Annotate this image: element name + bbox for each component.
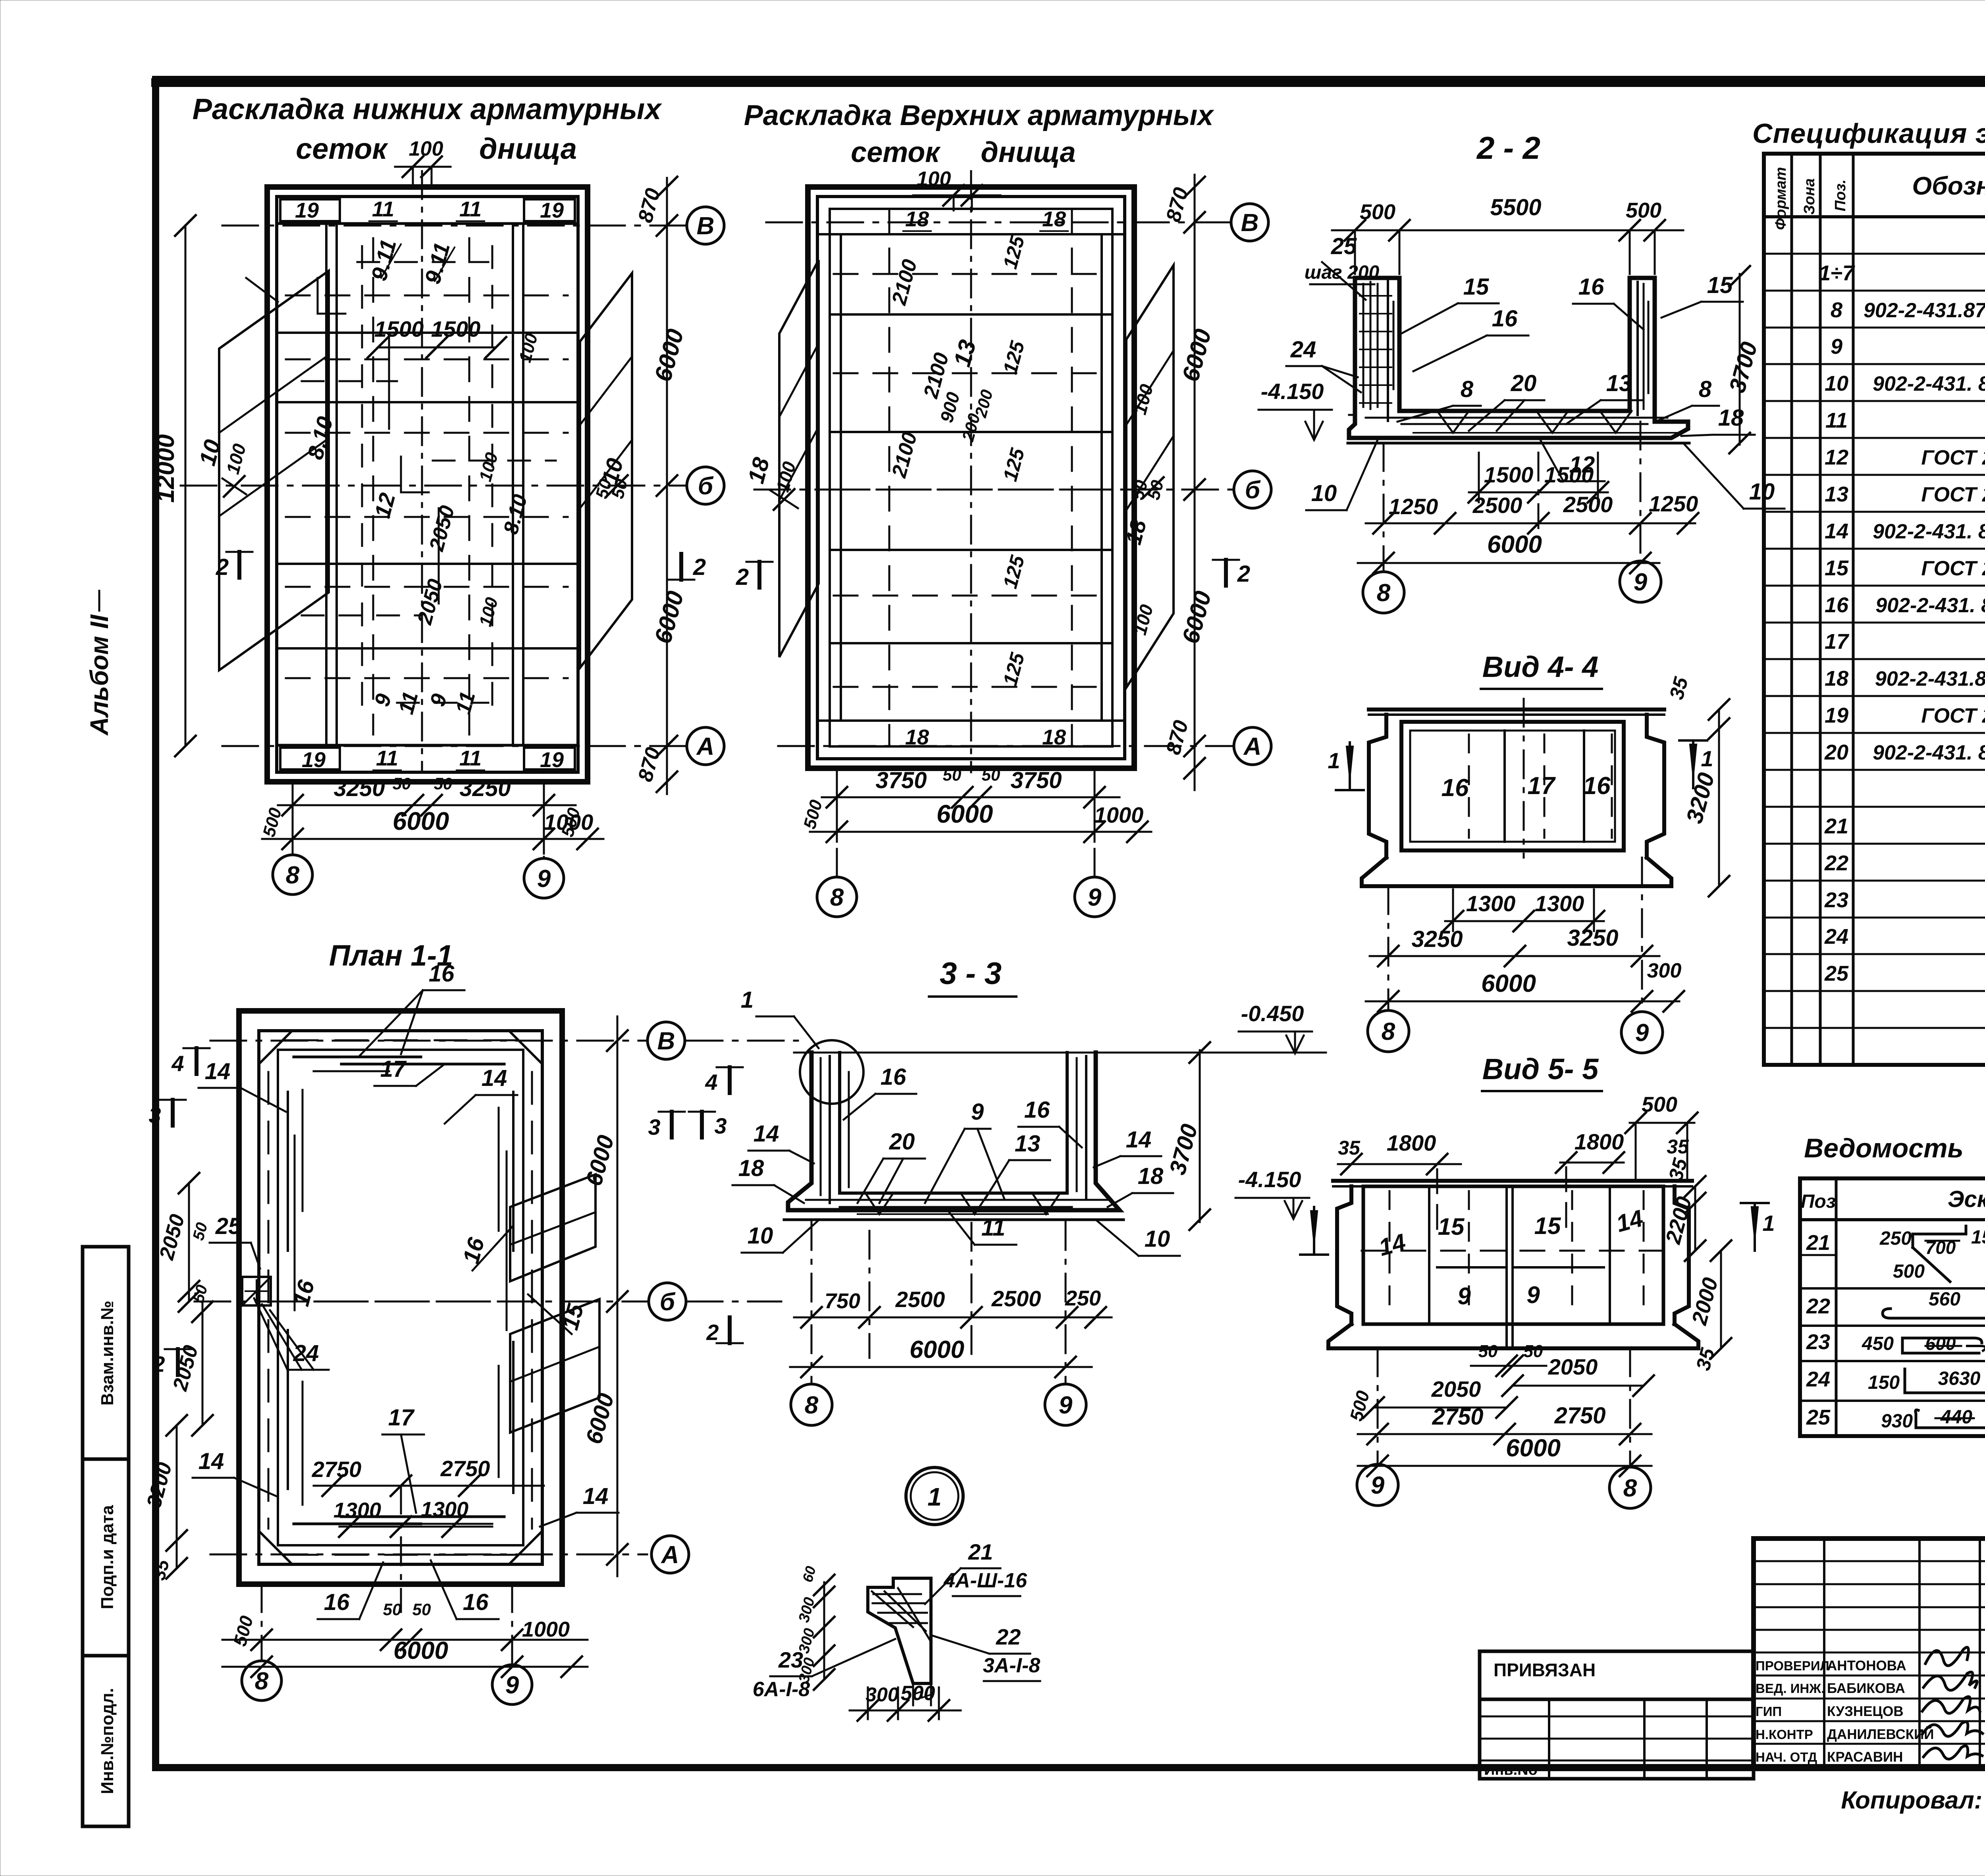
svg-text:21: 21 [1806,1231,1830,1255]
svg-text:22: 22 [1806,1294,1830,1318]
svg-text:2 - 2: 2 - 2 [1476,130,1540,166]
svg-text:1: 1 [1328,748,1340,773]
svg-text:35: 35 [1338,1137,1361,1159]
lower mesh plan bottom corner mesh boxes 19-11-11-19 [277,745,578,772]
svg-text:22: 22 [1824,851,1848,875]
svg-text:9: 9 [505,1672,519,1699]
svg-text:8: 8 [1623,1475,1637,1502]
svg-text:16: 16 [1492,306,1518,332]
svg-text:17: 17 [388,1405,415,1431]
parts list row 22 straight bar with hooks [1806,1289,1985,1318]
svg-text:Ведомость: Ведомость [1804,1133,1964,1163]
section 3-3 concrete outline [784,1053,1326,1220]
section 2-2 labels 8 20 13 8 18 [1397,370,1755,436]
plan 1-1 section marks 4 3 3 2 [148,1048,727,1377]
svg-text:14: 14 [754,1121,779,1147]
svg-text:1500: 1500 [1484,462,1534,487]
svg-text:2: 2 [693,554,706,580]
section 3-3 bottom chain 750 2500 2500 250 [794,1223,1112,1358]
svg-text:1000: 1000 [522,1618,570,1641]
svg-text:17: 17 [1528,772,1556,800]
svg-text:8: 8 [1699,376,1712,402]
svg-text:3250: 3250 [333,775,385,801]
svg-text:16: 16 [1825,593,1849,617]
bottom dimensions 3750-3750 of upper plan [800,765,1120,842]
svg-text:-4.150: -4.150 [1238,1167,1301,1192]
svg-text:6000: 6000 [1506,1434,1561,1462]
svg-text:б: б [660,1288,676,1316]
svg-text:8: 8 [1377,579,1391,607]
svg-text:16: 16 [1578,274,1604,300]
svg-text:21: 21 [1824,814,1848,838]
axis circle В lower plan [687,207,724,244]
svg-text:Инв.No: Инв.No [1484,1762,1538,1778]
svg-text:560: 560 [1929,1289,1960,1310]
svg-text:16: 16 [463,1589,489,1615]
svg-text:4: 4 [705,1070,717,1095]
svg-text:16: 16 [1583,772,1611,800]
right mesh sheet flag of lower plan [580,273,632,668]
svg-text:В: В [1241,209,1259,237]
svg-text:9: 9 [1634,569,1648,596]
specification table grid [1764,154,1985,1065]
svg-text:10: 10 [748,1223,773,1249]
axis circle А lower plan [687,727,724,765]
svg-text:3250: 3250 [459,775,511,801]
section title 2-2 [1476,130,1540,166]
svg-text:902-2-431.87- КЖН.41. 0-02: 902-2-431.87- КЖН.41. 0-02 [1864,299,1985,322]
svg-text:17: 17 [1825,630,1850,654]
svg-text:6000: 6000 [1487,531,1542,558]
svg-text:Подп.и дата: Подп.и дата [98,1505,117,1609]
section 3-3 wall rebar lines [821,1056,1086,1203]
section title 3-3 [929,956,1016,997]
svg-text:450: 450 [1862,1333,1894,1354]
svg-text:4А-Ш-16: 4А-Ш-16 [943,1569,1027,1592]
section 2-2 right wall rebar [1638,282,1648,415]
detail marker circle 1 [906,1467,963,1525]
svg-text:1300: 1300 [1535,891,1584,916]
flag labels 10 and 100 left [194,437,250,497]
svg-text:25: 25 [1331,233,1357,259]
view 5-5 bottom axis circles 9 8 [1357,1348,1651,1508]
svg-text:1500: 1500 [374,316,424,341]
svg-text:А: А [696,733,715,760]
axis circle Б upper plan [1234,471,1271,508]
section 3-3 bottom axis circles 8 9 [791,1222,1086,1425]
svg-text:902-2-431. 87 - КЖН. 43.0: 902-2-431. 87 - КЖН. 43.0 [1873,520,1985,543]
svg-text:17: 17 [380,1056,407,1082]
view 4-4 section marks 1-1 [1328,740,1713,790]
svg-text:11: 11 [376,746,398,770]
bottom dimension 6000 and 1000 of upper plan [810,800,1151,842]
svg-text:13: 13 [1606,370,1632,396]
svg-text:2: 2 [152,1352,165,1377]
svg-text:15: 15 [1463,274,1489,300]
detail 1 bottom dimension 300 500 [850,1682,961,1721]
svg-text:8: 8 [286,862,300,889]
svg-text:сеток: сеток [851,137,941,168]
parts list row 24 L-bar sketch [1806,1367,1985,1393]
section mark 2 right of lower plan [668,554,706,580]
svg-text:Формат: Формат [1773,167,1789,230]
axis line Б of lower plan [181,485,687,487]
view title План 1-1 [329,939,453,972]
plan 1-1 bottom dimensions 2750 2750 1300 1300 [312,1456,544,1612]
svg-text:2750: 2750 [1554,1403,1605,1429]
view 5-5 right dimensions 35 2200 2000 35 [1661,1155,1731,1373]
right mesh flag of upper plan [1126,265,1174,688]
title block signatures scribbles [1922,1647,1983,1759]
svg-text:11: 11 [459,746,482,770]
svg-text:3 - 3: 3 - 3 [940,956,1002,991]
svg-text:150: 150 [1868,1372,1900,1393]
svg-text:Взам.инв.№: Взам.инв.№ [98,1301,117,1406]
svg-text:3630: 3630 [1938,1368,1981,1389]
bottom dimension 6000 and 1000 of lower plan [262,807,603,849]
section 2-2 bottom dimension 6000 [1358,531,1659,573]
svg-text:10: 10 [1145,1226,1170,1252]
svg-text:Обозначение: Обозначение [1912,172,1985,200]
svg-text:21: 21 [968,1539,993,1564]
svg-text:3: 3 [714,1113,727,1138]
view 4-4 right dimension 35 3200 [1665,674,1729,897]
section 2-2 floor rebar [1366,411,1679,433]
svg-text:19: 19 [295,199,319,222]
svg-text:14: 14 [482,1065,507,1091]
view 5-5 top dimensions 500 35 1800 1800 35 [1338,1093,1698,1235]
svg-text:12000: 12000 [152,434,179,503]
view 5-5 internal dividers and labels [1362,1186,1663,1348]
svg-text:В: В [697,212,715,240]
svg-text:11: 11 [459,197,482,221]
plan 1-1 right dimension 6000 6000 [581,1016,628,1576]
section marks 4 3 2 around 3-3 [648,1067,743,1345]
svg-text:15: 15 [1438,1213,1465,1240]
svg-text:Инв.№подл.: Инв.№подл. [98,1688,117,1794]
svg-text:Эскиз: Эскиз [1948,1186,1985,1212]
svg-text:1: 1 [741,987,754,1013]
view 4-4 bottom axis circles 8 9 [1368,858,1663,1053]
svg-text:6000: 6000 [910,1336,964,1363]
svg-text:3: 3 [648,1114,660,1139]
svg-text:24: 24 [1824,925,1848,949]
svg-text:24: 24 [1806,1367,1830,1391]
left mesh sheet flag of lower plan [219,271,329,670]
privyazan cell [1480,1651,1754,1699]
parts list row 25 U-bar sketch [1806,1406,1985,1432]
svg-text:930: 930 [1881,1411,1913,1432]
plan 1-1 right mesh flags [510,1174,599,1433]
svg-text:-0.450: -0.450 [1241,1001,1304,1026]
svg-text:9: 9 [1088,884,1102,911]
section 2-2 label 12 below floor [1540,440,1605,481]
svg-text:КУЗНЕЦОВ: КУЗНЕЦОВ [1827,1704,1904,1719]
svg-text:50: 50 [1478,1342,1498,1361]
view 5-5 bottom chain 2750 2750 6000 [1358,1403,1652,1476]
svg-text:902-2-431. 87 - КЖН. 42.0: 902-2-431. 87 - КЖН. 42.0 [1873,372,1985,395]
view title: Раскладка верхних арматурных сеток днища [744,100,1215,168]
svg-text:Раскладка нижних арматурных: Раскладка нижних арматурных [193,93,663,125]
svg-text:25: 25 [1824,962,1849,985]
svg-text:1: 1 [1762,1211,1775,1236]
svg-text:Зона: Зона [1801,178,1818,215]
svg-text:2500: 2500 [991,1286,1041,1311]
svg-text:б: б [698,472,714,500]
axis circle В upper plan [1231,204,1268,241]
svg-text:250: 250 [1879,1228,1912,1249]
axis circle А upper plan [1234,727,1271,765]
lower mesh plan outer wall rectangle [267,187,588,782]
svg-text:16: 16 [1442,774,1469,802]
svg-text:А: А [1243,733,1262,760]
upper mesh plan internal labels [887,233,1029,688]
svg-text:50: 50 [943,765,962,784]
svg-text:ГОСТ 23279-85: ГОСТ 23279-85 [1921,483,1985,506]
right dimension chain 870-6000-6000-870 of upper plan [1162,175,1216,790]
svg-text:8: 8 [805,1392,819,1419]
svg-text:22: 22 [996,1624,1021,1649]
parts list table grid [1800,1178,1985,1436]
svg-text:300: 300 [1647,959,1682,982]
svg-text:24: 24 [1290,337,1316,362]
inventory strip table [1480,1699,1754,1779]
svg-text:23: 23 [1806,1330,1830,1354]
bottom axis circles 8 and 9 of lower plan [273,805,564,898]
section mark 2 left of lower plan [216,552,252,580]
svg-text:8: 8 [1461,376,1474,402]
section 2-2 label 24 [1286,337,1361,392]
svg-text:8: 8 [1382,1018,1395,1045]
svg-text:КРАСАВИН: КРАСАВИН [1827,1749,1903,1765]
plan 1-1 axis lines and circles В Б А [195,1022,689,1573]
detail 1 sketch wall corner [868,1578,931,1705]
section 2-2 top dimension 500 5500 500 [1332,195,1683,274]
svg-text:2: 2 [736,564,749,590]
svg-text:10: 10 [1311,480,1337,506]
svg-text:ДАНИЛЕВСКИЙ: ДАНИЛЕВСКИЙ [1827,1726,1934,1742]
svg-text:1500: 1500 [431,316,481,341]
section 2-2 level mark -4.150 [1258,379,1332,440]
svg-text:9: 9 [1635,1019,1649,1047]
svg-text:20: 20 [889,1129,915,1155]
section 2-2 labels 15 16 left [1401,274,1528,371]
detail 1 dimensions 60 300 300 300 [796,1564,834,1690]
svg-text:Вид 5- 5: Вид 5- 5 [1482,1053,1599,1085]
svg-text:902-2-431. 87- КЖН. 47.0: 902-2-431. 87- КЖН. 47.0 [1875,594,1985,617]
lower mesh plan internal labels [303,237,542,717]
svg-text:15: 15 [1707,272,1733,298]
svg-text:50: 50 [434,774,453,793]
svg-text:16: 16 [881,1064,906,1090]
svg-text:14: 14 [198,1448,224,1474]
svg-text:20: 20 [1511,370,1537,396]
svg-text:Н.КОНТР: Н.КОНТР [1756,1727,1813,1742]
svg-text:100: 100 [409,137,443,160]
svg-text:19: 19 [540,199,564,222]
axis line А of lower plan [222,745,687,747]
dimension 100 top of upper mesh plan [913,168,1000,210]
view 4-4 labels 16 17 16 [1442,772,1611,802]
svg-text:3250: 3250 [1411,926,1463,952]
plan 1-1 outer walls [239,1011,562,1584]
section 3-3 level marks -0.450 -4.150 [1235,1001,1312,1219]
svg-text:1500: 1500 [1544,462,1594,487]
svg-text:сеток: сеток [296,132,388,165]
view title: Раскладка нижних арматурных сеток днища [193,93,663,165]
svg-text:ГОСТ 23279-85: ГОСТ 23279-85 [1921,446,1985,469]
svg-text:14: 14 [583,1483,609,1509]
upper mesh plan top strip labels 18 18 [817,207,1125,234]
svg-text:ГОСТ 23279-85: ГОСТ 23279-85 [1921,704,1985,727]
svg-text:150: 150 [1971,1227,1985,1248]
view 4-4 dimensions 3250 3250 [1370,925,1659,966]
svg-text:БАБИКОВА: БАБИКОВА [1827,1681,1905,1696]
plan 1-1 bottom axis circles 8 9 [242,1584,532,1704]
flag label 10 right [592,455,632,501]
svg-text:3А-I-8: 3А-I-8 [983,1654,1041,1677]
plan 1-1 bottom labels 17 14 14 16 16 [193,1405,619,1619]
svg-text:1800: 1800 [1575,1129,1624,1154]
svg-text:2: 2 [1237,561,1250,587]
svg-text:11: 11 [372,197,394,221]
dimension 100 top of lower mesh plan [395,137,451,189]
svg-text:ПРИВЯЗАН: ПРИВЯЗАН [1494,1660,1596,1680]
svg-text:8: 8 [255,1668,269,1695]
album note [85,591,114,736]
svg-text:2500: 2500 [895,1287,945,1312]
svg-text:16: 16 [1024,1097,1050,1123]
svg-text:2750: 2750 [1432,1404,1483,1430]
svg-text:1÷7: 1÷7 [1819,261,1856,285]
svg-text:4: 4 [171,1051,184,1076]
svg-text:18: 18 [1042,207,1066,231]
svg-text:18: 18 [1138,1163,1164,1189]
svg-text:Спецификация элементов монол: Спецификация элементов монолитной констр… [1752,118,1985,149]
svg-text:25: 25 [215,1213,241,1239]
parts list title Ведомость деталей [1804,1133,1985,1163]
svg-text:902-2-431.87 - КЖН: 45.0: 902-2-431.87 - КЖН: 45.0 [1875,667,1985,690]
svg-text:250: 250 [1065,1286,1101,1310]
svg-text:20: 20 [1824,740,1848,764]
axis line А of upper plan [778,745,1233,747]
svg-text:100: 100 [917,168,951,191]
svg-text:13: 13 [1825,482,1848,506]
svg-text:3: 3 [148,1103,161,1128]
svg-text:1250: 1250 [1649,491,1698,516]
axis line В of lower plan [222,225,687,227]
svg-text:35: 35 [1667,1136,1689,1158]
svg-text:25: 25 [1806,1406,1831,1429]
svg-text:19: 19 [302,748,326,772]
svg-text:9: 9 [1526,1282,1540,1308]
svg-text:11: 11 [1825,409,1848,432]
svg-text:НАЧ. ОТД: НАЧ. ОТД [1756,1750,1817,1764]
svg-text:16: 16 [324,1589,350,1615]
svg-text:6000: 6000 [937,800,993,828]
svg-text:8: 8 [830,884,844,911]
section 3-3 floor rebar lines [806,1193,1108,1214]
svg-text:6000: 6000 [393,807,449,835]
svg-text:2: 2 [216,554,229,580]
svg-text:3750: 3750 [875,767,927,793]
svg-text:ПРОВЕРИЛ: ПРОВЕРИЛ [1756,1658,1829,1673]
svg-text:18: 18 [1825,667,1848,690]
dimension 12000 left of lower plan [152,215,196,756]
plan 1-1 side labels 16 15 16 24 25 [210,1213,589,1370]
upper mesh plan bottom strip labels 18 18 [817,721,1125,749]
svg-text:500: 500 [1626,199,1661,222]
svg-text:18: 18 [738,1155,764,1181]
section 2-2 left wall rebar [1360,280,1393,421]
svg-text:1: 1 [1701,746,1713,771]
svg-text:14: 14 [1126,1127,1152,1153]
svg-text:Копировал: Антипова: Копировал: Антипова [1841,1787,1985,1814]
svg-text:-4.150: -4.150 [1261,379,1324,404]
svg-text:23: 23 [1824,888,1848,912]
svg-text:Поз.: Поз. [1832,179,1849,212]
svg-text:500: 500 [1893,1261,1925,1282]
specification table title [1752,118,1985,149]
svg-text:18: 18 [905,207,929,231]
title block signature grid [1754,1539,1985,1767]
bottom copy annotation [1841,1778,1985,1817]
svg-text:днища: днища [981,137,1075,168]
svg-text:16: 16 [429,961,455,987]
upper plan right labels 50 50 18 [1121,382,1168,637]
svg-text:3750: 3750 [1010,767,1062,793]
view 5-5 section marks 1-1 [1300,1203,1775,1255]
view 5-5 panel outline [1328,1181,1698,1348]
svg-text:50: 50 [383,1600,402,1619]
section 2-2 bottom dimensions 1500 1500 [1469,453,1608,528]
svg-text:2750: 2750 [312,1457,362,1482]
svg-text:1300: 1300 [1466,891,1516,916]
svg-text:2500: 2500 [1563,492,1613,517]
parts list row 23 lapped bar sketch [1806,1330,1985,1354]
svg-text:9: 9 [1457,1283,1471,1309]
svg-text:50: 50 [982,765,1000,784]
svg-text:9: 9 [971,1099,984,1125]
specification table rows text [1819,224,1985,1059]
plan 1-1 left wall small box detail 25 [242,1277,271,1305]
svg-text:б: б [1245,476,1261,504]
svg-text:Раскладка Верхних арматурных: Раскладка Верхних арматурных [744,100,1215,131]
svg-text:15: 15 [1534,1213,1561,1239]
upper plan left labels 18 100 [743,455,800,510]
left margin stamp boxes [83,1247,129,1826]
svg-text:Вид 4- 4: Вид 4- 4 [1482,650,1598,683]
section 2-2 labels 16 15 right [1573,272,1743,330]
section mark 2 right of upper plan [1213,560,1250,587]
svg-text:2500: 2500 [1472,493,1522,518]
section 2-2 bottom axis circles 8 9 [1363,422,1661,613]
view 4-4 panel outline [1362,710,1671,886]
left mesh flag of upper plan [779,260,819,657]
svg-text:750: 750 [825,1289,860,1313]
axis line В of upper plan [766,222,1231,224]
svg-text:6000: 6000 [1481,970,1536,997]
bottom axis circles 8 and 9 of upper plan [817,797,1114,917]
view title Вид 5-5 [1482,1053,1602,1091]
section 3-3 bottom dimension 6000 [790,1336,1092,1377]
svg-text:12: 12 [1825,445,1848,469]
svg-text:9: 9 [1831,335,1842,359]
section 2-2 label 25 шаг 200 [1305,233,1380,300]
svg-text:ГОСТ 23279-85: ГОСТ 23279-85 [1921,557,1985,580]
svg-text:50: 50 [393,774,411,793]
svg-text:1250: 1250 [1389,494,1438,519]
